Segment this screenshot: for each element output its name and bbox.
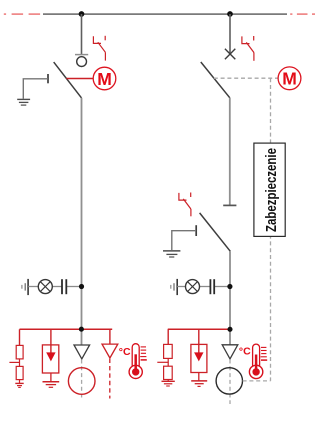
wire red drop to temp sensor bay1: [109, 329, 111, 344]
auxiliary contact S2 (red): [242, 36, 254, 61]
wire to earth (bay2): [172, 231, 196, 250]
disconnector Q2 blade: [201, 62, 230, 98]
auxiliary contact S3 (red): [179, 193, 191, 217]
capacitor C2 (coupling): [210, 279, 214, 294]
fixed contact bar of ES2: [223, 204, 236, 206]
node: bay2 red tap junction: [227, 327, 232, 332]
temperature sensor triangle bay1 (red): [102, 344, 118, 358]
node: bay2 bus junction: [227, 11, 233, 17]
wire dashed to load bay2: [229, 360, 231, 405]
voltage indicator branch bay2: probe ticks: [171, 279, 177, 295]
voltage divider R1 (red, with tap): [9, 329, 23, 383]
lamp H2 (voltage indicator): [186, 280, 200, 294]
capacitor C1 (coupling): [62, 279, 66, 294]
wire red distribution bay1: [20, 328, 113, 330]
wire voltage branch bay1: [28, 286, 81, 288]
svg-text:M: M: [97, 69, 112, 89]
load circle bay2: [216, 368, 242, 394]
ground of R1 (red): [15, 383, 23, 387]
arrester F1 arrow head: [46, 352, 55, 361]
wire dashed protection drop: [270, 78, 272, 381]
node: bay1 red tap junction: [79, 327, 84, 332]
node: bay2 indicator tap: [227, 284, 232, 289]
protection relay box (Zabezpieczenie): [254, 143, 285, 236]
busbar (main horizontal bus): [43, 13, 287, 15]
thermometer icon bay1: [129, 344, 147, 379]
busbar continuation dashes right (red): [290, 13, 315, 15]
wire red distribution bay2: [168, 328, 230, 330]
svg-text:M: M: [282, 69, 297, 89]
wire motor link M1 (red): [66, 78, 93, 80]
earth contact bar of Q1: [47, 74, 49, 83]
ground (bay2 earthing switch): [163, 251, 180, 257]
wire to earth (bay1): [23, 79, 48, 99]
ground (bay1 earthing switch): [17, 99, 30, 105]
node: bay1 indicator tap: [79, 284, 84, 289]
load circle bay1 (red): [68, 368, 95, 395]
node: bay1 bus junction: [79, 11, 85, 17]
wire bay2 feeder upper: [229, 98, 231, 206]
voltage indicator branch bay1: probe ticks: [22, 279, 28, 295]
ground of F2 (red): [191, 381, 207, 387]
contact bar above Q1 fixed contact: [75, 54, 88, 56]
ground of F1 (red): [43, 382, 60, 388]
busbar continuation dashes left (red): [4, 13, 40, 15]
surge arrester F2 (red): [191, 329, 207, 381]
voltage divider R2 (red, with tap): [157, 329, 172, 381]
motor drive M2: [278, 67, 301, 90]
disconnector Q1 blade: [54, 62, 82, 98]
cable termination bay1 (triangle): [74, 345, 90, 359]
wire dashed motor link M2: [214, 77, 278, 79]
svg-text:°C: °C: [239, 346, 251, 358]
earthing switch ES2 blade: [200, 213, 231, 251]
motor drive M1: [93, 67, 116, 90]
thermometer icon bay2: [249, 344, 267, 378]
surge arrester F1 (red): [42, 329, 58, 381]
auxiliary contact S1 (red): [93, 36, 105, 61]
wire bay1 bus drop: [81, 14, 83, 55]
svg-text:°C: °C: [119, 346, 131, 358]
lamp H1 (voltage indicator): [38, 280, 52, 294]
ground of R2 (red): [162, 381, 175, 386]
svg-text:Zabezpieczenie: Zabezpieczenie: [262, 148, 279, 232]
wire voltage branch bay2: [177, 286, 230, 288]
wire dashed protection to load: [243, 380, 271, 382]
earth contact bar of ES2: [195, 225, 197, 236]
disconnector Q1 fixed contact (circle): [77, 57, 87, 67]
wire bay2 bus drop: [229, 14, 231, 54]
circuit breaker Q2 contact (X): [225, 49, 235, 59]
wire dashed to load bay1: [81, 360, 83, 399]
cable termination bay2 (triangle): [222, 345, 238, 359]
wire bay1 feeder: [81, 98, 83, 345]
arrester F2 arrow head: [194, 352, 203, 361]
wire red dashed below sensor bay1: [109, 359, 111, 399]
wire bay2 feeder lower: [229, 251, 231, 344]
